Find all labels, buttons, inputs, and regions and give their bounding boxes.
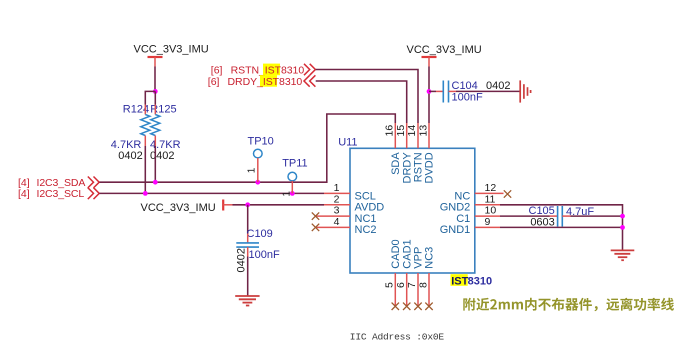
svg-text:10: 10 [485,205,497,217]
svg-text:12: 12 [485,182,497,194]
svg-text:NC2: NC2 [355,224,377,236]
note (Chinese) keep 2mm clear, away from power lines [463,298,674,312]
svg-text:RSTN_IST8310: RSTN_IST8310 [231,64,305,76]
svg-text:[6]: [6] [208,76,220,88]
wire branch to R124 [145,91,155,104]
resistor R125 [150,91,181,162]
svg-text:TP10: TP10 [248,136,274,148]
wire net RSTN to pin 14 [316,70,418,124]
svg-text:1: 1 [282,191,293,197]
svg-text:I2C3_SDA: I2C3_SDA [37,177,86,189]
svg-text:100nF: 100nF [452,92,483,104]
wire AVDD rail to pin 2 [233,204,325,206]
svg-text:[6]: [6] [211,64,223,76]
wire net SCL to pin 1 [100,192,325,194]
pin 14 RSTN (top) [406,123,424,182]
svg-text:IST: IST [451,275,468,287]
svg-text:NC: NC [454,190,470,202]
svg-text:AVDD: AVDD [355,202,385,214]
svg-text:0402: 0402 [236,248,248,272]
pin 5 CAD0 (bottom, no connect) [384,239,402,310]
wire R125 to SDA [154,146,156,182]
node R125/SDA [153,180,158,185]
svg-text:1: 1 [246,167,257,173]
svg-text:11: 11 [485,193,496,205]
svg-text:[4]: [4] [18,177,30,189]
svg-text:16: 16 [384,125,396,137]
pin 12 NC (no connect) [454,182,511,202]
svg-text:13: 13 [417,125,429,137]
svg-text:C1: C1 [456,213,470,225]
node DVDD/C104 junction [427,89,432,94]
wire R124 to SCL [144,146,146,193]
pin 2 AVDD [324,193,384,213]
svg-text:C105: C105 [529,205,555,217]
port RSTN_IST8310 [211,64,316,77]
node TP10/SDA [255,180,260,185]
svg-text:CAD1: CAD1 [401,239,413,268]
pin 10 C1 [456,205,500,225]
svg-text:C104: C104 [452,80,478,92]
node junction VCC/R124/R125 [153,89,158,94]
svg-text:U11: U11 [338,137,357,149]
svg-text:VCC_3V3_IMU: VCC_3V3_IMU [141,202,216,214]
wire C105 to ground rail [571,215,623,217]
capacitor C109 [236,228,280,273]
node GND1/rail [620,225,625,230]
svg-text:NC1: NC1 [355,213,377,225]
resistor R124 [111,104,150,163]
node R124/SCL [143,191,148,196]
wire GND2 to ground rail [500,205,623,251]
svg-text:SDA: SDA [390,152,402,175]
label IST8310 [451,274,493,287]
svg-text:0402: 0402 [118,150,142,162]
wire net DRDY to pin 15 [316,81,407,123]
pin 13 DVDD (top) [417,123,435,183]
pin 4 NC2 (no connect) [312,216,377,236]
svg-text:[4]: [4] [18,188,30,200]
svg-text:0402: 0402 [486,80,510,92]
node AVDD/C109 junction [245,202,250,207]
svg-text:CAD0: CAD0 [390,239,402,268]
svg-text:NC3: NC3 [424,247,436,269]
svg-text:GND2: GND2 [440,202,471,214]
IC U11 IST8310 body [350,148,475,273]
port I2C3_SDA [18,177,99,190]
svg-text:DVDD: DVDD [424,152,436,183]
pin 7 VPP (bottom, no connect) [406,247,424,310]
wire C109 to ground [247,257,249,297]
port I2C3_SCL [18,188,99,201]
svg-text:DRDY: DRDY [401,152,413,184]
svg-text:6: 6 [395,282,407,288]
capacitor C104 [436,80,510,104]
pin 16 SDA (top) [384,123,402,175]
pin 11 GND2 [440,193,500,213]
ground (sideways, right of C104) [520,80,530,102]
svg-text:DRDY_IST8310: DRDY_IST8310 [228,76,303,88]
svg-text:8310: 8310 [468,275,492,287]
test point TP11 [282,158,308,197]
power symbol VCC_3V3_IMU (top-right) [407,44,482,67]
svg-text:SCL: SCL [355,190,376,202]
pin 8 NC3 (bottom, no connect) [417,247,435,310]
svg-text:VCC_3V3_IMU: VCC_3V3_IMU [407,44,482,56]
wire C104 to ground [456,90,520,92]
svg-text:9: 9 [485,216,491,228]
svg-text:VCC_3V3_IMU: VCC_3V3_IMU [134,44,209,56]
svg-text:5: 5 [384,282,396,288]
wire VCC to junction [154,67,156,92]
node C105/rail [620,214,625,219]
svg-text:TP11: TP11 [282,158,307,170]
svg-text:IIC Address :0x0E: IIC Address :0x0E [350,331,445,342]
power symbol VCC_3V3_IMU (top-left) [134,44,209,67]
svg-text:100nF: 100nF [249,249,280,261]
ground (below C109) [235,296,259,306]
ground (right rail) [611,250,635,260]
pin 15 DRDY (top) [395,123,413,183]
pin 1 SCL [324,182,376,202]
pin 6 CAD1 (bottom, no connect) [395,239,413,310]
svg-text:8: 8 [417,282,429,288]
svg-text:3: 3 [334,205,340,217]
pin 9 GND1 [440,216,500,236]
power symbol VCC_3V3_IMU (AVDD rail) [141,200,233,215]
svg-text:0603: 0603 [530,216,554,228]
svg-text:R125: R125 [150,104,176,116]
svg-text:0402: 0402 [150,150,174,162]
wire net SDA horizontal+vertical to pin 16 [100,114,396,182]
wire C1 to C105 [500,215,550,217]
node TP11/SCL [290,191,295,196]
wire GND1 to ground rail [500,226,623,228]
wire junction down to C109 [247,205,249,234]
svg-text:GND1: GND1 [440,224,471,236]
svg-text:1: 1 [334,182,340,194]
capacitor C105 [529,205,595,229]
test point TP10 [246,136,273,183]
svg-text:4: 4 [334,216,340,228]
svg-text:C109: C109 [247,228,273,240]
wire VCC to pin 13 [428,67,430,124]
svg-text:15: 15 [395,125,407,137]
port DRDY_IST8310 [208,75,316,88]
pin 3 NC1 (no connect) [312,205,377,225]
svg-text:I2C3_SCL: I2C3_SCL [37,188,85,200]
svg-text:2: 2 [334,193,340,205]
wire junction to C104 [429,90,436,92]
